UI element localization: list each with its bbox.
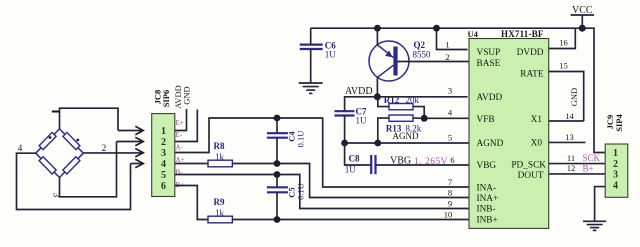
bridge edge bottom-right bbox=[60, 153, 84, 177]
svg-text:AGND: AGND bbox=[477, 139, 504, 149]
wire C8 right to U4 VBG pin6 bbox=[376, 164, 469, 166]
resistor R8 bbox=[208, 160, 232, 167]
svg-text:7: 7 bbox=[448, 177, 452, 187]
wire U4 VSUP pin1 to rail bbox=[437, 28, 468, 49]
wire B+ (JC8 pin6) to R9 bbox=[175, 186, 208, 220]
resistor R12 bbox=[378, 97, 424, 119]
junction AVDD node bbox=[374, 93, 381, 100]
wire DOUT pin12 to JC9 pin3 bbox=[549, 173, 606, 175]
svg-text:1k: 1k bbox=[215, 208, 225, 218]
svg-text:HX711-BF: HX711-BF bbox=[501, 29, 544, 39]
wire VCC top rail bbox=[311, 27, 583, 29]
svg-text:0.1U: 0.1U bbox=[296, 131, 306, 148]
arrow into JC8 pin4 bbox=[131, 159, 144, 167]
svg-text:2: 2 bbox=[161, 137, 166, 148]
svg-text:3: 3 bbox=[448, 86, 452, 96]
svg-text:SIP6: SIP6 bbox=[161, 90, 171, 107]
wire RATE pin15 tied to GND net bbox=[549, 72, 584, 122]
SECTION: top rail, C6, Q2 bbox=[299, 5, 606, 153]
svg-text:6: 6 bbox=[450, 155, 454, 165]
svg-text:X1: X1 bbox=[531, 115, 543, 125]
junction node A- / C4 top bbox=[274, 115, 281, 122]
svg-text:BASE: BASE bbox=[477, 59, 501, 69]
ground below JC9 bbox=[583, 221, 606, 230]
wire A- (JC8 pin3) to U4 INA- pin7 bbox=[175, 118, 469, 187]
wire A+ (JC8 pin4) to R8 bbox=[175, 163, 208, 165]
svg-text:X0: X0 bbox=[531, 139, 543, 149]
svg-text:U4: U4 bbox=[468, 29, 479, 39]
strain gauge R bottom-left bbox=[39, 157, 56, 174]
svg-text:E-: E- bbox=[176, 131, 183, 139]
svg-text:AGND: AGND bbox=[393, 131, 419, 141]
bridge edge bottom-left bbox=[36, 153, 60, 177]
wire PD_SCK pin11 to JC9 pin2 bbox=[549, 163, 606, 165]
svg-text:INA-: INA- bbox=[477, 184, 497, 194]
wire X0 pin13 stub bbox=[549, 141, 586, 143]
svg-text:1: 1 bbox=[161, 126, 166, 137]
capacitor C6 bbox=[300, 28, 323, 82]
svg-text:1: 1 bbox=[613, 148, 618, 159]
bridge edge top-right bbox=[60, 129, 84, 153]
node 1 label (dash) bbox=[52, 111, 60, 113]
wire JC9 pin4 to ground bbox=[595, 187, 606, 221]
strain gauge R bottom-right bbox=[63, 157, 80, 174]
capacitor C7 bbox=[335, 111, 355, 143]
svg-text:DVDD: DVDD bbox=[517, 48, 544, 58]
wire AGND down to C8 left bbox=[345, 143, 371, 165]
SECTION: AVDD/R12/R13/C7/C8 bbox=[335, 86, 470, 175]
svg-text:5: 5 bbox=[448, 133, 452, 143]
svg-text:6: 6 bbox=[161, 181, 166, 192]
svg-text:1U: 1U bbox=[356, 116, 368, 126]
svg-text:GND: GND bbox=[182, 86, 192, 104]
wire node1 to arrow pin1 bbox=[60, 108, 119, 130]
svg-text:SCK: SCK bbox=[583, 153, 601, 163]
svg-text:2: 2 bbox=[613, 159, 618, 170]
junction node B- / C5 top bbox=[274, 171, 281, 178]
svg-text:14: 14 bbox=[565, 111, 574, 121]
svg-text:GND: GND bbox=[569, 88, 579, 106]
svg-text:5: 5 bbox=[161, 170, 166, 181]
svg-text:8: 8 bbox=[448, 188, 452, 198]
wire X1 pin14 to GND net bbox=[549, 120, 584, 122]
wire node4 to arrow pin4 bbox=[17, 153, 131, 209]
junction VCC on rail bbox=[579, 25, 586, 32]
svg-text:R12: R12 bbox=[384, 95, 400, 105]
power symbol VCC bbox=[571, 5, 594, 28]
strain gauge R top-left bbox=[39, 132, 56, 149]
resistor R9 bbox=[208, 216, 232, 223]
svg-text:AVDD: AVDD bbox=[345, 86, 373, 97]
svg-text:INB-: INB- bbox=[477, 205, 496, 215]
svg-text:1k: 1k bbox=[215, 152, 225, 162]
svg-text:INB+: INB+ bbox=[477, 215, 498, 225]
arrow into JC8 pin3 bbox=[83, 149, 143, 157]
svg-text:VCC: VCC bbox=[572, 5, 593, 16]
svg-text:8550: 8550 bbox=[413, 49, 432, 59]
svg-text:0.1U: 0.1U bbox=[296, 183, 306, 200]
svg-text:R8: R8 bbox=[214, 141, 225, 151]
svg-text:10: 10 bbox=[444, 210, 453, 220]
svg-text:AVDD: AVDD bbox=[477, 93, 503, 103]
arrow into JC8 pin1 bbox=[118, 126, 143, 134]
SECTION: middle RC network bbox=[175, 115, 469, 223]
strain gauge R top-right bbox=[63, 132, 80, 149]
wire VCC to JC9 pin1 bbox=[582, 28, 605, 152]
SECTION: right side JC9 bbox=[549, 28, 628, 230]
wire AGND row to U4 AGND pin5 bbox=[345, 142, 469, 144]
svg-text:INA+: INA+ bbox=[477, 194, 499, 204]
capacitor C8 bbox=[371, 155, 375, 174]
capacitor C4 bbox=[267, 118, 288, 164]
wire Q2 base to U4 BASE pin2 bbox=[398, 61, 469, 63]
wire R9 to U4 INB+ pin10 bbox=[232, 219, 469, 221]
SECTION: U4 chip bbox=[444, 29, 549, 228]
transistor Q2 (PNP 8550) bbox=[369, 41, 409, 81]
wire VFB node to U4 pin4 bbox=[424, 117, 469, 119]
junction VFB node bbox=[421, 115, 428, 122]
svg-text:12: 12 bbox=[567, 163, 576, 173]
junction AGND / C7 bottom bbox=[341, 140, 348, 147]
svg-text:9: 9 bbox=[448, 199, 452, 209]
wire AVDD node to U4 AVDD pin3 and to C7 bbox=[345, 97, 468, 111]
svg-text:20k: 20k bbox=[406, 95, 420, 105]
svg-text:4: 4 bbox=[18, 143, 23, 153]
junction node A+ / C4 bottom bbox=[274, 160, 281, 167]
svg-text:VBG: VBG bbox=[477, 161, 497, 171]
connector JC8 body bbox=[152, 114, 175, 197]
junction Q2 emitter on rail bbox=[374, 25, 381, 32]
svg-text:SIP4: SIP4 bbox=[614, 114, 624, 132]
svg-text:B+: B+ bbox=[583, 163, 594, 173]
svg-text:PD_SCK: PD_SCK bbox=[511, 160, 546, 170]
wire node3 to arrow pin2 bbox=[60, 142, 117, 197]
svg-text:13: 13 bbox=[565, 132, 574, 142]
op-amp/ADC U4 body bbox=[469, 39, 549, 229]
svg-text:R9: R9 bbox=[214, 197, 225, 207]
svg-text:16: 16 bbox=[559, 37, 568, 47]
svg-text:VFB: VFB bbox=[477, 115, 495, 125]
resistor R13 bbox=[378, 115, 424, 143]
svg-text:1: 1 bbox=[445, 39, 449, 49]
gauge dot upper-right bbox=[76, 139, 79, 142]
junction AGND / R13 bbox=[374, 140, 381, 147]
svg-text:E+: E+ bbox=[176, 119, 184, 127]
junction node B+ / C5 bottom bbox=[274, 216, 281, 223]
svg-text:15: 15 bbox=[559, 61, 568, 71]
svg-text:VSUP: VSUP bbox=[477, 48, 501, 58]
gauge dot upper-left bbox=[49, 136, 52, 139]
wire Q2 emitter to rail bbox=[376, 28, 378, 45]
svg-text:1. 265V: 1. 265V bbox=[414, 157, 448, 167]
svg-text:DOUT: DOUT bbox=[518, 171, 544, 181]
SECTION: left bridge bbox=[17, 108, 144, 209]
svg-text:4: 4 bbox=[161, 159, 166, 170]
wire R8 to U4 INA+ pin8 bbox=[232, 164, 469, 198]
svg-text:A-: A- bbox=[176, 144, 184, 152]
svg-text:4: 4 bbox=[613, 181, 618, 192]
wire E+ to AVDD stub bbox=[175, 109, 187, 131]
SECTION: JC8 connector bbox=[152, 85, 198, 196]
bridge edge top-left bbox=[36, 129, 60, 153]
ground below C6 bbox=[299, 83, 323, 93]
svg-text:1U: 1U bbox=[345, 165, 357, 175]
junction pin1 riser on rail bbox=[433, 25, 440, 32]
connector JC9 body bbox=[605, 144, 628, 197]
svg-text:C8: C8 bbox=[349, 154, 360, 164]
svg-text:2: 2 bbox=[102, 143, 107, 153]
svg-text:VBG: VBG bbox=[390, 156, 411, 167]
svg-text:1U: 1U bbox=[325, 50, 337, 60]
svg-text:3: 3 bbox=[613, 170, 618, 181]
capacitor C5 bbox=[267, 175, 288, 220]
svg-text:3: 3 bbox=[161, 148, 166, 159]
svg-text:RATE: RATE bbox=[520, 70, 544, 80]
arrow into JC8 pin2 bbox=[117, 137, 144, 145]
svg-text:2: 2 bbox=[445, 52, 449, 62]
wire B- (JC8 pin5) to U4 INB- pin9 bbox=[175, 175, 469, 209]
wire Q2 collector to AVDD node bbox=[376, 77, 378, 96]
wire DVDD pin16 to rail bbox=[549, 28, 576, 48]
svg-text:11: 11 bbox=[567, 153, 575, 163]
wire E- to GND stub bbox=[175, 110, 198, 142]
